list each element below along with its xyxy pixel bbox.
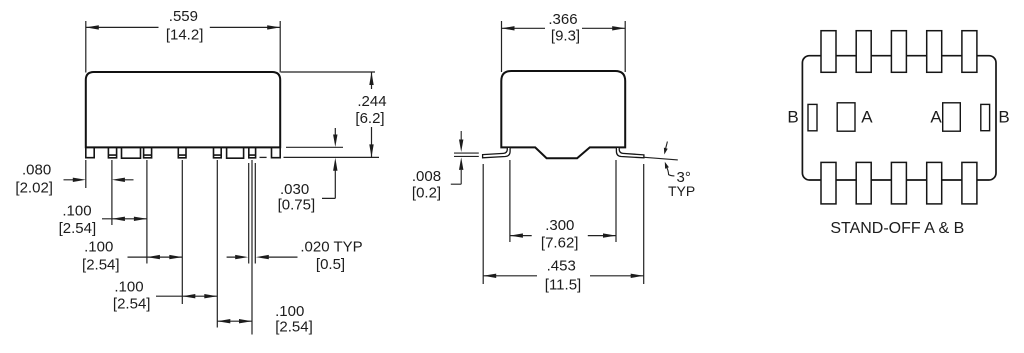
pin P6 lead — [214, 148, 222, 158]
svg-text:[6.2]: [6.2] — [355, 110, 384, 127]
top pad 2 — [856, 31, 871, 73]
bottom pad 3 — [891, 162, 906, 204]
svg-text:.100: .100 — [62, 203, 91, 220]
svg-text:[2.54]: [2.54] — [275, 319, 313, 336]
svg-text:[0.2]: [0.2] — [412, 185, 441, 202]
svg-text:.244: .244 — [357, 93, 386, 110]
seating plane dash — [260, 156, 267, 158]
dimension .300 [7.62] — [510, 160, 616, 242]
dimension .008 [0.2] — [451, 131, 479, 184]
bottom pad 4 — [927, 162, 942, 204]
bottom pad 2 — [856, 162, 871, 204]
svg-text:.100: .100 — [114, 279, 143, 296]
pin P2 lead — [108, 148, 116, 158]
pin P9 — [272, 148, 281, 158]
svg-text:[2.54]: [2.54] — [82, 256, 120, 273]
svg-text:[7.62]: [7.62] — [541, 235, 579, 252]
svg-text:[2.54]: [2.54] — [59, 220, 97, 237]
svg-text:.030: .030 — [280, 181, 309, 198]
svg-text:TYP: TYP — [668, 183, 695, 199]
svg-text:B: B — [787, 108, 798, 127]
stand-off A right — [943, 103, 961, 131]
svg-text:STAND-OFF A & B: STAND-OFF A & B — [830, 220, 964, 237]
dimension .453 [11.5] — [483, 164, 644, 284]
dimension .244 [6.2] — [281, 72, 375, 157]
svg-text:.559: .559 — [169, 8, 198, 25]
dimension .100 [2.54] row 4 — [217, 320, 252, 322]
svg-text:.453: .453 — [547, 258, 576, 275]
dimension .080 [2.02] — [64, 179, 134, 181]
stand-off B right — [981, 104, 990, 130]
top pad 1 — [821, 31, 836, 73]
dimension .030 [0.75] — [286, 128, 343, 198]
svg-text:[11.5]: [11.5] — [545, 277, 581, 294]
seating plane extension line — [284, 156, 380, 158]
stand-off A left — [837, 103, 855, 131]
extension line pin P4 center — [146, 160, 148, 264]
svg-text:[2.02]: [2.02] — [15, 179, 53, 196]
dimension .020 TYP [0.5] — [227, 256, 298, 258]
package body end view — [501, 71, 625, 158]
dimension .559 [14.2] — [86, 21, 280, 73]
svg-text:A: A — [861, 108, 873, 127]
extension line pin P8 left edge — [248, 163, 250, 264]
svg-text:.080: .080 — [22, 162, 51, 179]
svg-text:.100: .100 — [275, 303, 304, 320]
extension line body left edge — [85, 160, 87, 188]
dimension .366 [9.3] — [502, 21, 626, 72]
stand-off tab P7 — [227, 148, 244, 159]
svg-text:A: A — [930, 108, 942, 127]
svg-text:[0.5]: [0.5] — [316, 256, 345, 273]
dimension .100 [2.54] row 3 — [156, 295, 217, 297]
svg-text:.300: .300 — [545, 217, 574, 234]
svg-text:.020 TYP: .020 TYP — [300, 239, 362, 256]
3 deg TYP angle indicator — [644, 142, 678, 176]
extension line pin P8 center — [251, 160, 253, 335]
pin P1 — [86, 148, 94, 158]
top pad 4 — [927, 31, 942, 73]
right gull-wing lead — [616, 147, 644, 158]
extension line pin P6 center — [216, 160, 218, 328]
svg-text:B: B — [998, 108, 1009, 127]
bottom pad 5 — [962, 162, 977, 204]
stand-off tab P3 — [122, 148, 141, 159]
extension line pin P8 right edge — [254, 163, 256, 264]
svg-text:.366: .366 — [548, 11, 577, 28]
bottom pad 1 — [821, 162, 836, 204]
dimension .100 [2.54] row 2 — [128, 256, 183, 258]
svg-text:.008: .008 — [412, 168, 441, 185]
extension line pin P5 center — [181, 160, 183, 304]
svg-text:[14.2]: [14.2] — [166, 27, 204, 44]
package outline bottom view — [802, 56, 996, 180]
svg-text:[9.3]: [9.3] — [551, 28, 580, 45]
svg-text:[2.54]: [2.54] — [113, 295, 151, 312]
top pad 5 — [962, 31, 977, 73]
svg-text:[0.75]: [0.75] — [278, 197, 316, 214]
pin P4 lead — [144, 148, 152, 158]
pin P8 lead — [249, 148, 256, 158]
svg-text:.100: .100 — [84, 239, 113, 256]
left gull-wing lead — [483, 147, 511, 158]
pin P5 lead — [178, 148, 186, 158]
dimension .100 [2.54] row 1 — [102, 218, 147, 220]
stand-off B left — [808, 104, 817, 130]
top pad 3 — [891, 31, 906, 73]
extension line pin P2 center — [111, 160, 113, 225]
package body front view — [86, 72, 280, 148]
